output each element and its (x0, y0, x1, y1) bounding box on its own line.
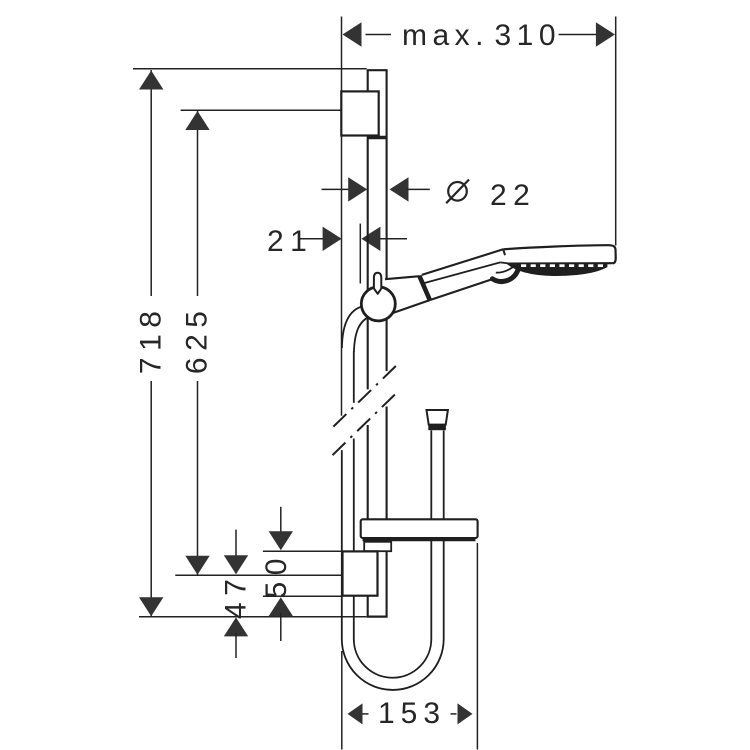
svg-text:310: 310 (495, 19, 562, 52)
svg-text:max.: max. (402, 19, 489, 52)
svg-text:21: 21 (267, 225, 313, 258)
svg-text:50: 50 (260, 552, 293, 598)
svg-text:153: 153 (378, 697, 446, 730)
svg-text:625: 625 (181, 305, 214, 375)
svg-text:22: 22 (490, 179, 536, 212)
svg-text:718: 718 (134, 305, 167, 375)
svg-text:47: 47 (220, 573, 253, 619)
